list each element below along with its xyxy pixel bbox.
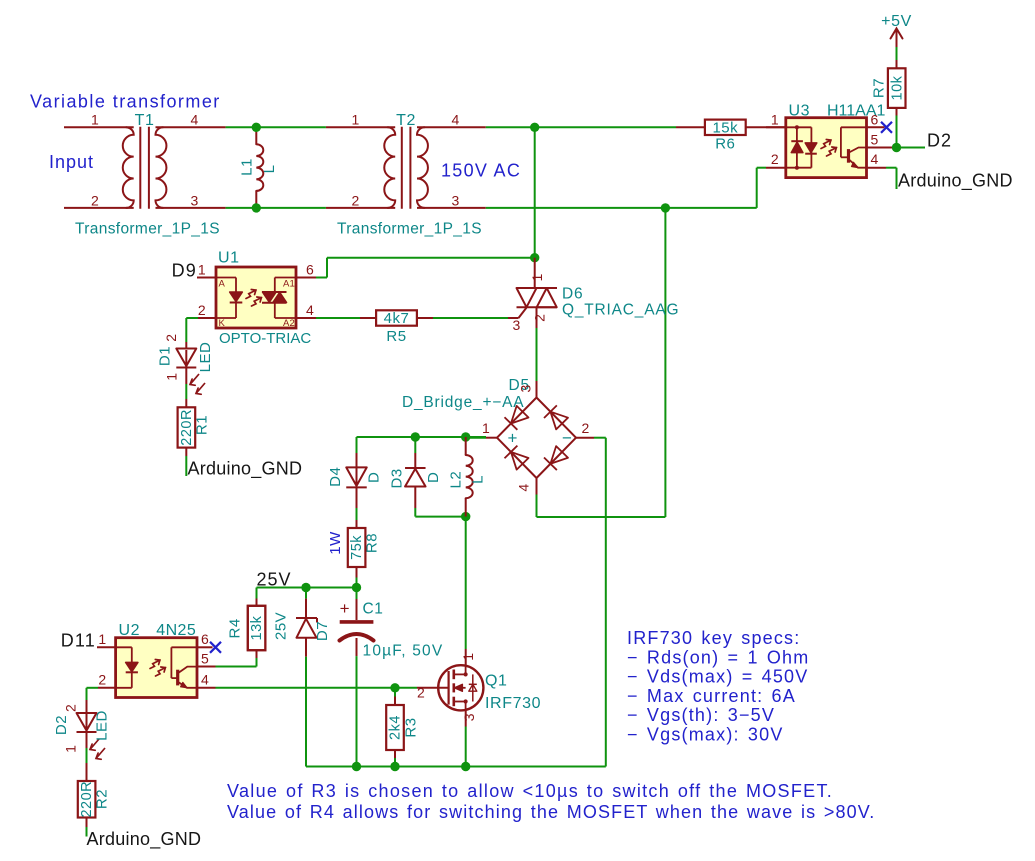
svg-text:1: 1 bbox=[771, 112, 779, 128]
svg-text:T2: T2 bbox=[396, 112, 416, 129]
svg-text:1: 1 bbox=[351, 112, 359, 128]
svg-text:− Vgs(th): 3−5V: − Vgs(th): 3−5V bbox=[627, 705, 775, 725]
svg-text:U2: U2 bbox=[119, 622, 141, 639]
svg-text:6: 6 bbox=[306, 261, 314, 277]
svg-text:R1: R1 bbox=[194, 415, 211, 435]
svg-text:Arduino_GND: Arduino_GND bbox=[188, 459, 303, 480]
svg-text:2k4: 2k4 bbox=[388, 715, 404, 740]
svg-text:+5V: +5V bbox=[881, 13, 912, 30]
svg-text:Transformer_1P_1S: Transformer_1P_1S bbox=[337, 220, 482, 237]
svg-text:OPTO-TRIAC: OPTO-TRIAC bbox=[219, 330, 311, 347]
svg-text:IRF730: IRF730 bbox=[485, 695, 541, 712]
svg-text:1: 1 bbox=[98, 631, 106, 647]
svg-text:220R: 220R bbox=[179, 409, 195, 446]
svg-text:Arduino_GND: Arduino_GND bbox=[898, 171, 1013, 192]
svg-text:A: A bbox=[219, 279, 226, 290]
svg-text:3: 3 bbox=[512, 317, 520, 333]
svg-text:1: 1 bbox=[482, 420, 490, 436]
svg-text:−: − bbox=[562, 429, 572, 448]
svg-text:R2: R2 bbox=[94, 789, 111, 809]
svg-text:1: 1 bbox=[460, 653, 476, 661]
svg-text:3: 3 bbox=[461, 713, 477, 721]
svg-text:D: D bbox=[366, 472, 383, 483]
svg-text:D9: D9 bbox=[172, 261, 197, 281]
svg-text:K: K bbox=[219, 318, 226, 329]
svg-text:Q_TRIAC_AAG: Q_TRIAC_AAG bbox=[562, 302, 679, 319]
svg-text:2: 2 bbox=[98, 672, 106, 688]
svg-text:Q1: Q1 bbox=[485, 673, 508, 690]
svg-text:25V: 25V bbox=[257, 569, 292, 589]
svg-text:R5: R5 bbox=[386, 328, 406, 345]
svg-text:Value of R3 is chosen to allow: Value of R3 is chosen to allow <10µs to … bbox=[227, 781, 833, 801]
svg-text:D2: D2 bbox=[927, 131, 952, 151]
svg-text:R3: R3 bbox=[403, 717, 420, 737]
svg-text:4: 4 bbox=[451, 112, 459, 128]
svg-text:D6: D6 bbox=[562, 286, 583, 303]
svg-text:D11: D11 bbox=[61, 631, 96, 651]
svg-text:LED: LED bbox=[197, 342, 214, 373]
svg-text:R8: R8 bbox=[364, 533, 381, 553]
svg-text:U1: U1 bbox=[218, 250, 240, 267]
svg-text:A1: A1 bbox=[283, 279, 295, 290]
svg-text:Variable transformer: Variable transformer bbox=[30, 92, 221, 112]
svg-text:10k: 10k bbox=[889, 75, 905, 100]
svg-text:2: 2 bbox=[532, 314, 548, 322]
svg-text:4: 4 bbox=[190, 112, 198, 128]
svg-text:2: 2 bbox=[198, 302, 206, 318]
svg-text:− Vds(max) = 450V: − Vds(max) = 450V bbox=[627, 667, 808, 687]
svg-text:Value of R4 allows for switchi: Value of R4 allows for switching the MOS… bbox=[227, 802, 875, 822]
svg-text:4N25: 4N25 bbox=[156, 622, 196, 639]
svg-text:5: 5 bbox=[871, 131, 879, 147]
svg-text:4: 4 bbox=[306, 302, 314, 318]
svg-text:150V AC: 150V AC bbox=[441, 160, 521, 180]
svg-text:D7: D7 bbox=[314, 621, 331, 641]
svg-text:1: 1 bbox=[91, 112, 99, 128]
svg-text:R4: R4 bbox=[227, 618, 244, 638]
svg-text:D3: D3 bbox=[389, 468, 406, 488]
svg-text:3: 3 bbox=[518, 384, 534, 392]
svg-text:25V: 25V bbox=[273, 612, 290, 640]
svg-text:L: L bbox=[261, 165, 278, 174]
svg-text:+: + bbox=[508, 429, 518, 448]
svg-text:2: 2 bbox=[771, 151, 779, 167]
svg-text:D1: D1 bbox=[157, 346, 174, 366]
svg-text:5: 5 bbox=[201, 650, 209, 666]
svg-text:1: 1 bbox=[63, 745, 79, 753]
svg-text:10µF, 50V: 10µF, 50V bbox=[363, 643, 444, 660]
svg-text:4: 4 bbox=[201, 672, 209, 688]
svg-text:2: 2 bbox=[91, 192, 99, 208]
svg-text:D2: D2 bbox=[53, 715, 70, 735]
svg-text:− Rds(on) = 1 Ohm: − Rds(on) = 1 Ohm bbox=[627, 647, 809, 667]
svg-text:D4: D4 bbox=[327, 467, 344, 487]
svg-text:2: 2 bbox=[417, 685, 425, 701]
svg-text:6: 6 bbox=[201, 631, 209, 647]
svg-text:Transformer_1P_1S: Transformer_1P_1S bbox=[75, 220, 220, 237]
svg-text:− Max current: 6A: − Max current: 6A bbox=[627, 686, 796, 706]
svg-text:D: D bbox=[425, 472, 442, 483]
svg-text:1W: 1W bbox=[327, 531, 344, 555]
svg-text:IRF730 key specs:: IRF730 key specs: bbox=[627, 628, 800, 648]
svg-text:6: 6 bbox=[871, 112, 879, 128]
svg-text:L2: L2 bbox=[448, 471, 465, 489]
svg-text:2: 2 bbox=[63, 704, 79, 712]
svg-text:R6: R6 bbox=[715, 136, 735, 153]
svg-text:4k7: 4k7 bbox=[384, 310, 410, 327]
svg-text:L: L bbox=[470, 475, 487, 484]
svg-text:2: 2 bbox=[163, 334, 179, 342]
svg-text:3: 3 bbox=[190, 192, 198, 208]
svg-text:1: 1 bbox=[164, 373, 180, 381]
svg-text:2: 2 bbox=[351, 192, 359, 208]
svg-text:LED: LED bbox=[94, 710, 111, 741]
svg-text:4: 4 bbox=[871, 151, 879, 167]
svg-text:U3: U3 bbox=[789, 102, 811, 119]
svg-text:D_Bridge_+−AA: D_Bridge_+−AA bbox=[402, 394, 524, 411]
svg-text:Input: Input bbox=[49, 152, 94, 172]
svg-text:13k: 13k bbox=[249, 615, 265, 640]
svg-text:3: 3 bbox=[451, 192, 459, 208]
svg-text:1: 1 bbox=[529, 273, 545, 281]
svg-text:4: 4 bbox=[516, 484, 532, 492]
svg-text:A2: A2 bbox=[283, 318, 295, 329]
svg-text:R7: R7 bbox=[871, 78, 888, 98]
svg-text:L1: L1 bbox=[239, 158, 256, 176]
svg-text:Arduino_GND: Arduino_GND bbox=[87, 829, 202, 850]
svg-text:T1: T1 bbox=[135, 112, 155, 129]
svg-text:+: + bbox=[340, 599, 350, 618]
svg-text:C1: C1 bbox=[363, 601, 384, 618]
svg-text:2: 2 bbox=[581, 420, 589, 436]
svg-text:15k: 15k bbox=[712, 119, 738, 136]
svg-text:1: 1 bbox=[198, 261, 206, 277]
svg-text:− Vgs(max): 30V: − Vgs(max): 30V bbox=[627, 725, 784, 745]
